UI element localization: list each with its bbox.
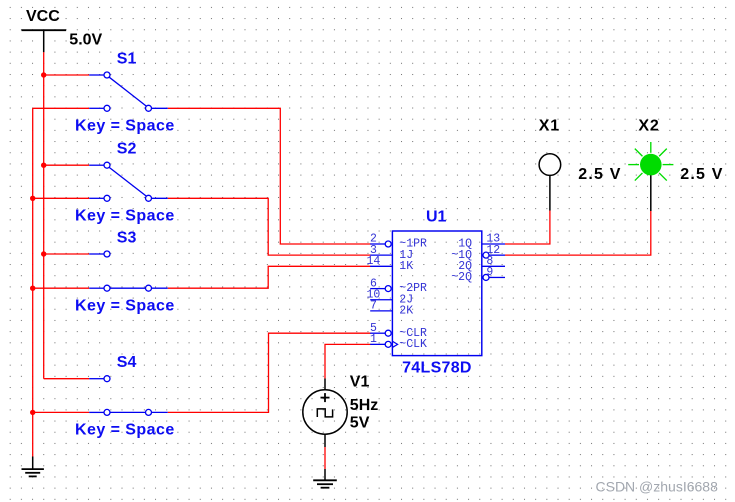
watermark CSDN <box>596 478 719 494</box>
pin label ~2Q (U1) <box>451 271 472 284</box>
pin 12 (U1 right) <box>483 244 505 258</box>
wire S1 pole to U1 pin2 <box>168 108 371 244</box>
wire V1 to U1 pin1 <box>325 344 371 378</box>
svg-text:5Hz: 5Hz <box>350 397 378 414</box>
wire bus1 to S3 top <box>44 253 89 255</box>
label X1 <box>539 117 560 134</box>
pin 8 (U1 right) <box>482 255 505 268</box>
svg-text:1K: 1K <box>399 260 413 273</box>
pin 7 (U1 left) <box>370 300 392 313</box>
wire U1 pin12 to X2 <box>505 211 651 255</box>
label Key = Space (S2) <box>75 208 175 225</box>
wire bus1 to S4 top <box>44 378 89 380</box>
pin 2 (U1 left) <box>370 233 391 247</box>
svg-text:Key = Space: Key = Space <box>75 298 175 315</box>
label S1 <box>117 50 137 67</box>
wire U1 pin13 to X1 <box>505 211 550 245</box>
node C junction S3 top <box>41 251 46 256</box>
label Key = Space (S4) <box>75 422 175 439</box>
svg-text:X2: X2 <box>638 117 659 134</box>
svg-text:74LS78D: 74LS78D <box>402 359 472 376</box>
pin 6 (U1 left) <box>370 277 391 291</box>
op-amp U1 body (74LS78D outline) <box>392 231 481 356</box>
node A junction S1 top <box>41 72 46 77</box>
pin label ~1Q (U1) <box>451 249 472 262</box>
node B junction S2 top <box>41 163 46 168</box>
wire S2 pole to U1 pin3 <box>168 198 371 255</box>
svg-text:Key = Space: Key = Space <box>75 208 175 225</box>
wire VCC bus vertical <box>43 75 45 379</box>
svg-text:X1: X1 <box>539 117 560 134</box>
pin label 1Q (U1) <box>458 238 472 251</box>
label U1 <box>426 209 447 226</box>
label X2 <box>638 117 659 134</box>
pin 14 (U1 left) <box>367 255 393 268</box>
voltage source V1 (clock) <box>303 379 347 448</box>
pin 1 (U1 left) <box>370 333 398 347</box>
wire bus2 to S3 bottom <box>33 287 89 289</box>
svg-text:S1: S1 <box>117 50 137 67</box>
pin 5 (U1 left) <box>370 322 391 336</box>
svg-text:CSDN @zhusI6688: CSDN @zhusI6688 <box>596 478 719 494</box>
label S2 <box>117 141 137 158</box>
wire bus1 to S2 top <box>44 164 89 166</box>
pin label 2K (U1) <box>399 305 413 318</box>
svg-text:2.5 V: 2.5 V <box>578 166 621 183</box>
label X1 value 2.5 V <box>578 166 621 183</box>
pin label ~2PR (U1) <box>399 282 427 295</box>
wire VCC to node A <box>43 52 45 75</box>
wire ground bus vertical <box>32 108 34 456</box>
svg-text:U1: U1 <box>426 209 447 226</box>
pin label ~1PR (U1) <box>399 238 427 251</box>
ground symbol V1 <box>313 469 337 488</box>
label X2 value 2.5 V <box>680 166 723 183</box>
label S3 <box>117 229 137 246</box>
pin label 2Q (U1) <box>458 260 472 273</box>
indicator X1 (probe) <box>539 154 561 211</box>
node D junction S2 bottom <box>30 196 35 201</box>
svg-text:9: 9 <box>486 266 493 279</box>
svg-text:S4: S4 <box>117 354 137 371</box>
switch S4 (SPDT) <box>89 376 168 416</box>
pin label 1J (U1) <box>399 249 413 262</box>
indicator X2 (probe, lit) <box>628 142 673 211</box>
pin 9 (U1 right) <box>483 266 505 280</box>
wire S4 pole to U1 pin5 <box>168 333 371 412</box>
svg-text:2K: 2K <box>399 305 413 318</box>
svg-text:5V: 5V <box>350 414 370 431</box>
pin label ~CLR (U1) <box>399 327 427 340</box>
wire S3 pole to U1 pin14 <box>168 266 371 288</box>
node F junction S4 bottom <box>30 410 35 415</box>
pin label 2J (U1) <box>399 293 413 306</box>
label Key = Space (S3) <box>75 298 175 315</box>
label S4 <box>117 354 137 371</box>
label V1 value 5Hz <box>350 397 378 414</box>
label V1 value 5V <box>350 414 370 431</box>
pin label 1K (U1) <box>399 260 413 273</box>
pin 3 (U1 left) <box>370 244 392 257</box>
pin label ~CLK (U1) <box>399 338 427 351</box>
wire bus2 to S1 bottom <box>33 107 89 109</box>
wire bus2 to S4 bottom <box>33 411 89 413</box>
wire bus2 to S2 bottom <box>33 197 89 199</box>
svg-text:S2: S2 <box>117 141 137 158</box>
VCC value label 5.0V <box>69 32 102 49</box>
svg-text:Key = Space: Key = Space <box>75 118 175 135</box>
wire V1 to ground <box>324 447 326 469</box>
label V1 <box>350 374 370 391</box>
switch S2 (SPDT) <box>89 162 168 201</box>
pin 10 (U1 left) <box>367 288 393 301</box>
power VCC symbol <box>22 8 67 52</box>
svg-text:Key = Space: Key = Space <box>75 422 175 439</box>
node E junction S3 bottom <box>30 286 35 291</box>
switch S3 (SPDT) <box>89 251 168 291</box>
label Key = Space (S1) <box>75 118 175 135</box>
ground symbol left <box>22 457 44 477</box>
svg-text:14: 14 <box>367 255 381 268</box>
svg-text:~CLK: ~CLK <box>399 338 427 351</box>
svg-text:2.5 V: 2.5 V <box>680 166 723 183</box>
svg-text:7: 7 <box>370 300 377 313</box>
svg-text:VCC: VCC <box>26 8 60 25</box>
svg-text:5.0V: 5.0V <box>69 32 102 49</box>
pin 13 (U1 right) <box>482 233 505 246</box>
svg-text:V1: V1 <box>350 374 370 391</box>
label 74LS78D <box>402 359 472 376</box>
wire bus1 to S1 top <box>44 74 89 76</box>
switch S1 (SPDT) <box>89 72 168 111</box>
svg-text:~2Q: ~2Q <box>451 271 472 284</box>
svg-text:1: 1 <box>370 333 377 346</box>
wire bus1 to S4 top <box>88 378 90 380</box>
wire S1 bottom corner <box>0 0 1 1</box>
svg-text:S3: S3 <box>117 229 137 246</box>
